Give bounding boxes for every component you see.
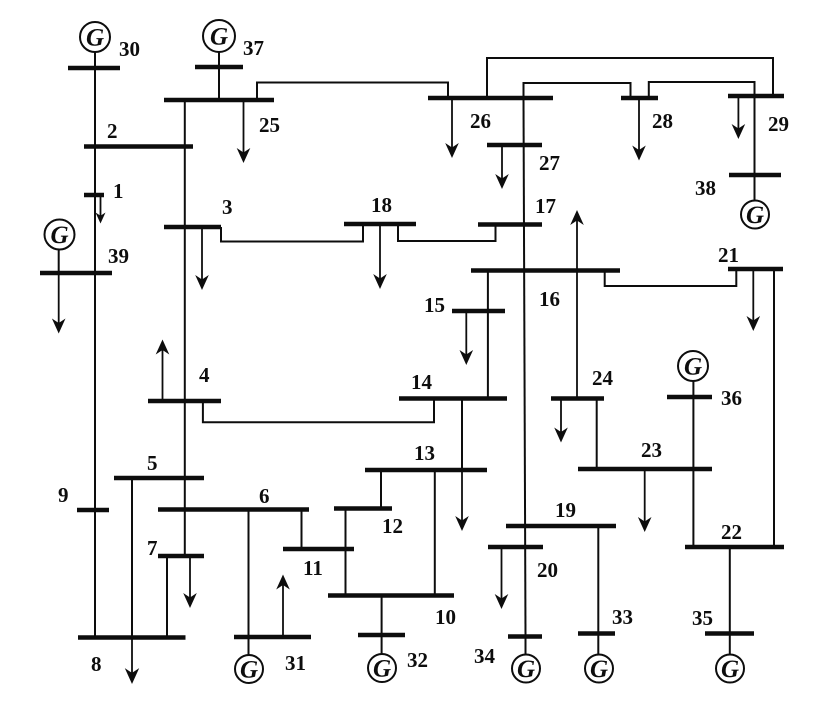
- load arrow bus 25: [237, 100, 251, 163]
- bus 24: [551, 396, 604, 401]
- svg-text:35: 35: [692, 606, 713, 630]
- bus 8: [78, 635, 186, 640]
- svg-text:G: G: [240, 657, 258, 684]
- wire 16-15-14: [487, 271, 489, 399]
- svg-text:29: 29: [768, 112, 789, 136]
- bus 29: [728, 94, 784, 99]
- svg-text:6: 6: [259, 484, 270, 508]
- svg-text:1: 1: [113, 179, 124, 203]
- bus 4: [148, 399, 221, 404]
- bus 19: [506, 524, 616, 529]
- svg-text:G: G: [210, 24, 228, 51]
- svg-text:G: G: [590, 656, 608, 683]
- svg-text:27: 27: [539, 151, 560, 175]
- svg-text:3: 3: [222, 195, 233, 219]
- wire 25-26: [257, 83, 448, 101]
- svg-text:14: 14: [411, 370, 433, 394]
- load arrow bus 39: [52, 273, 66, 334]
- bus 18: [344, 222, 416, 227]
- wire 30-2-1-39-9-8 (left trunk): [94, 52, 96, 638]
- bus 26: [428, 96, 553, 101]
- generator G32: [368, 654, 396, 683]
- svg-text:G: G: [746, 202, 764, 229]
- bus 12: [334, 506, 392, 511]
- load arrow bus 24: [554, 399, 568, 443]
- wire 6-11: [301, 510, 303, 550]
- arrow up bus 31/11: [276, 575, 290, 638]
- wire G39 to bus 39: [58, 250, 60, 274]
- load arrow bus 28: [632, 98, 646, 161]
- bus 10: [328, 593, 454, 598]
- wire 16-21: [605, 269, 737, 286]
- bus 20: [488, 545, 543, 550]
- wire 28-29: [649, 82, 755, 98]
- bus 39: [40, 271, 112, 276]
- bus 33 terminal bar: [578, 631, 615, 636]
- bus 37 terminal bar: [195, 65, 243, 70]
- generator G34: [512, 655, 540, 684]
- svg-text:15: 15: [424, 293, 445, 317]
- bus 3: [164, 225, 221, 230]
- svg-text:23: 23: [641, 438, 662, 462]
- load arrow bus 23: [638, 469, 652, 532]
- load arrow bus 27: [495, 145, 509, 189]
- svg-text:G: G: [86, 25, 104, 52]
- svg-text:4: 4: [199, 363, 210, 387]
- wire 10-32-G32: [381, 596, 383, 655]
- load arrow bus 21: [747, 269, 761, 331]
- bus 17: [478, 222, 542, 227]
- bus 13: [365, 468, 487, 473]
- svg-text:17: 17: [535, 194, 556, 218]
- bus 36 terminal bar: [667, 395, 712, 400]
- svg-text:33: 33: [612, 605, 633, 629]
- svg-text:24: 24: [592, 366, 614, 390]
- bus 30 terminal bar: [68, 66, 120, 71]
- bus 9: [77, 508, 109, 513]
- svg-text:9: 9: [58, 483, 69, 507]
- bus 6: [158, 507, 309, 512]
- bus 15: [452, 309, 505, 314]
- bus 22: [685, 545, 784, 550]
- arrow up bus 4: [156, 340, 170, 402]
- svg-text:34: 34: [474, 644, 496, 668]
- generator G39: [45, 220, 75, 250]
- svg-text:G: G: [50, 222, 68, 249]
- svg-text:2: 2: [107, 119, 118, 143]
- load arrow bus 8: [125, 638, 139, 685]
- wire 26-29: [487, 58, 773, 98]
- svg-text:5: 5: [147, 451, 158, 475]
- bus 1: [84, 193, 104, 198]
- wire 14-13: [461, 399, 463, 471]
- bus 32 terminal bar: [358, 633, 405, 638]
- generator G38: [741, 201, 769, 230]
- wire 3-18: [221, 224, 363, 242]
- svg-text:7: 7: [147, 536, 158, 560]
- wire 5-8: [131, 478, 133, 638]
- generator G33: [585, 655, 613, 684]
- bus 23: [578, 467, 712, 472]
- svg-text:12: 12: [382, 514, 403, 538]
- load arrow bus 26: [445, 98, 459, 158]
- wire 18-17: [398, 224, 496, 241]
- bus 2: [84, 144, 193, 149]
- generator G35: [716, 655, 744, 684]
- wire 13-12: [380, 470, 382, 509]
- generator G30: [80, 22, 110, 52]
- svg-text:38: 38: [695, 176, 716, 200]
- bus 7: [158, 554, 204, 559]
- svg-text:G: G: [517, 656, 535, 683]
- wire 22-23: [692, 469, 694, 547]
- bus 14: [399, 396, 507, 401]
- svg-text:31: 31: [285, 651, 306, 675]
- svg-text:39: 39: [108, 244, 129, 268]
- wire G36-36-23: [692, 381, 694, 469]
- bus 25: [164, 98, 274, 103]
- arrow up bus 16/24: [570, 210, 584, 399]
- load arrow bus 20: [495, 547, 509, 609]
- svg-text:G: G: [684, 354, 702, 381]
- generator G37: [203, 20, 235, 52]
- svg-text:11: 11: [303, 556, 323, 580]
- wire 4-14: [203, 399, 434, 423]
- svg-text:28: 28: [652, 109, 673, 133]
- load arrow bus 1: [96, 195, 106, 224]
- bus 16: [471, 268, 620, 273]
- bus 5: [114, 476, 204, 481]
- bus 31 terminal bar: [234, 635, 311, 640]
- wire 23-24: [596, 399, 598, 470]
- wire 21-22 (right vertical): [773, 269, 775, 547]
- svg-text:22: 22: [721, 520, 742, 544]
- svg-text:26: 26: [470, 109, 491, 133]
- svg-text:18: 18: [371, 193, 392, 217]
- svg-text:19: 19: [555, 498, 576, 522]
- wire 34-G34: [525, 637, 527, 655]
- bus 21: [728, 267, 783, 272]
- load arrow bus 13: [455, 470, 469, 531]
- generator G31: [235, 655, 263, 684]
- wire 6-31-G31: [248, 510, 250, 656]
- wire 22-35-G35: [729, 547, 731, 655]
- svg-text:10: 10: [435, 605, 456, 629]
- svg-text:37: 37: [243, 36, 264, 60]
- svg-text:16: 16: [539, 287, 560, 311]
- wire 13-10: [434, 470, 436, 596]
- generator G36: [678, 351, 708, 381]
- load arrow bus 18: [373, 224, 387, 289]
- wire 25-2-3-4-5-6-7 (trunk): [184, 100, 186, 556]
- wire 12-11-10: [345, 509, 347, 596]
- wire 26-28: [524, 83, 631, 98]
- svg-text:20: 20: [537, 558, 558, 582]
- svg-text:G: G: [373, 656, 391, 683]
- svg-text:8: 8: [91, 652, 102, 676]
- svg-text:21: 21: [718, 243, 739, 267]
- wire 7-8: [166, 556, 168, 638]
- bus 28: [621, 96, 658, 101]
- svg-text:13: 13: [414, 441, 435, 465]
- wire G37 to bus 25: [218, 52, 220, 100]
- load arrow bus 3: [195, 227, 209, 290]
- svg-text:G: G: [721, 656, 739, 683]
- load arrow bus 7: [183, 556, 197, 608]
- svg-text:32: 32: [407, 648, 428, 672]
- bus 38 terminal bar: [729, 173, 781, 178]
- bus 11: [283, 547, 354, 552]
- wire 19-33-G33: [597, 526, 599, 655]
- bus 35 terminal bar: [705, 631, 754, 636]
- wire 29-38-G38: [754, 96, 756, 201]
- load arrow bus 15: [460, 311, 474, 365]
- wire 26-27-17-16-19-20-34 (long vertical): [524, 98, 526, 637]
- svg-text:36: 36: [721, 386, 742, 410]
- load arrow bus 29: [732, 96, 746, 139]
- bus 27: [487, 143, 542, 148]
- svg-text:25: 25: [259, 113, 280, 137]
- svg-text:30: 30: [119, 37, 140, 61]
- bus 34 terminal bar: [508, 634, 542, 639]
